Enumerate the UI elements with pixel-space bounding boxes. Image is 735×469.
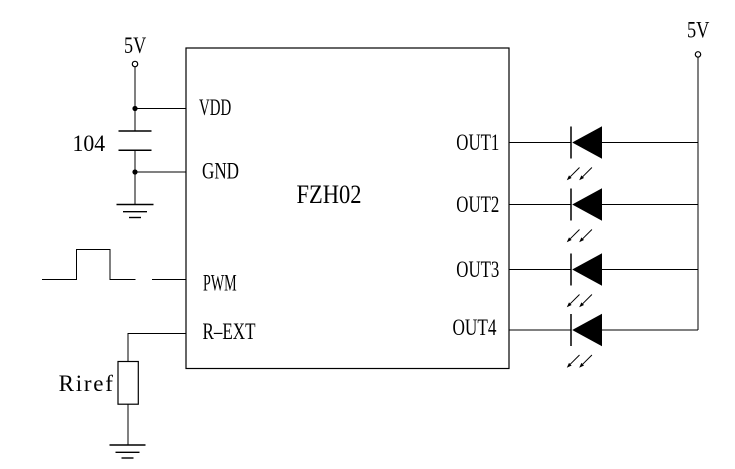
svg-text:Riref: Riref [59, 371, 114, 396]
wire 5V terminal to VDD junction [134, 67, 136, 109]
wire GND junction to ground symbol [134, 172, 136, 205]
wire OUT3 to LED D3 [509, 269, 571, 271]
svg-text:5V: 5V [124, 33, 146, 58]
wire VDD junction to capacitor top plate [134, 109, 136, 132]
LED D1 emission arrows [567, 168, 592, 181]
svg-text:GND: GND [202, 159, 239, 184]
wire LED D2 to 5V rail [602, 204, 698, 206]
pin label GND [202, 159, 239, 184]
capacitor C1 plates [119, 131, 152, 150]
wire GND junction to GND pin [135, 171, 186, 173]
wire LED D4 to 5V rail [602, 329, 698, 331]
svg-text:R–EXT: R–EXT [203, 319, 256, 344]
LED D4 emission arrows [567, 355, 592, 368]
svg-text:5V: 5V [687, 18, 710, 43]
pin label OUT3 [456, 257, 499, 282]
LED D2 [571, 188, 602, 220]
node VDD junction [132, 106, 137, 111]
svg-text:104: 104 [73, 131, 106, 156]
wire 5V right rail [697, 57, 699, 330]
LED D3 [571, 253, 602, 285]
wire VDD junction to VDD pin [135, 108, 186, 110]
ground symbol (Riref) [110, 445, 146, 458]
svg-text:OUT2: OUT2 [456, 192, 499, 217]
ground symbol (capacitor) [117, 205, 154, 218]
label 5V left [124, 33, 146, 58]
wire OUT4 to LED D4 [509, 329, 571, 331]
LED D3 emission arrows [567, 295, 592, 308]
wire LED D3 to 5V rail [602, 269, 698, 271]
pin label R-EXT [203, 319, 256, 344]
svg-text:OUT3: OUT3 [456, 257, 499, 282]
wire PWM stub to PWM pin [152, 279, 186, 281]
resistor Riref body [118, 362, 138, 405]
wire resistor to ground [127, 404, 129, 445]
IC U1 FZH02 body [186, 48, 509, 369]
IC U1 value label FZH02 [297, 179, 362, 209]
power terminal 5V right [695, 52, 700, 57]
pin label PWM [203, 271, 237, 296]
LED D4 [571, 314, 602, 346]
node GND junction [132, 169, 137, 174]
capacitor C1 value 104 [73, 131, 106, 156]
LED D1 [571, 126, 602, 158]
resistor Riref label [59, 371, 114, 396]
svg-text:FZH02: FZH02 [297, 179, 362, 209]
svg-text:OUT1: OUT1 [456, 130, 499, 155]
power terminal 5V left [132, 61, 137, 66]
svg-text:PWM: PWM [203, 271, 237, 296]
PWM input waveform symbol [42, 250, 136, 280]
pin label OUT2 [456, 192, 499, 217]
wire R-EXT pin to resistor [128, 334, 186, 362]
svg-text:OUT4: OUT4 [453, 315, 497, 340]
label 5V right [687, 18, 710, 43]
wire OUT2 to LED D2 [509, 204, 571, 206]
pin label VDD [199, 95, 231, 120]
LED D2 emission arrows [567, 230, 592, 243]
wire LED D1 to 5V rail [602, 142, 698, 144]
wire OUT1 to LED D1 [509, 142, 571, 144]
wire capacitor bottom plate to GND junction [134, 150, 136, 172]
pin label OUT4 [453, 315, 497, 340]
pin label OUT1 [456, 130, 499, 155]
svg-text:VDD: VDD [199, 95, 231, 120]
